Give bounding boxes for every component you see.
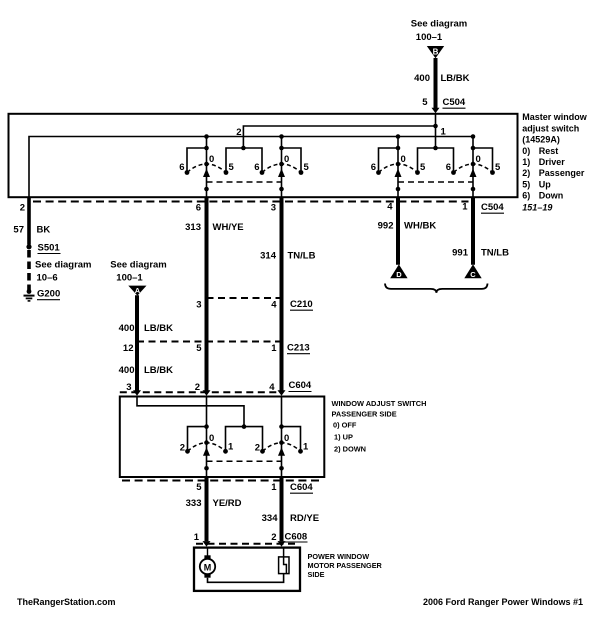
- svg-text:4: 4: [271, 300, 277, 311]
- wiper wire of switch unit 4 (passenger): [472, 137, 474, 198]
- svg-text:10–6: 10–6: [37, 273, 58, 284]
- ground G200: [24, 289, 61, 301]
- svg-text:4: 4: [269, 382, 275, 393]
- svg-text:C604: C604: [289, 380, 312, 391]
- wire 57 BK to ground: [13, 197, 50, 245]
- svg-text:C: C: [470, 270, 476, 279]
- svg-text:1) UP: 1) UP: [334, 433, 353, 442]
- svg-text:2: 2: [236, 127, 241, 138]
- svg-text:WINDOW ADJUST SWITCH: WINDOW ADJUST SWITCH: [332, 399, 427, 408]
- svg-text:2: 2: [255, 443, 260, 454]
- svg-text:5: 5: [229, 162, 235, 173]
- contact dots of switch unit 1 (driver): [185, 170, 190, 175]
- ground bus wire to pin 2: [29, 137, 473, 198]
- net 1 wire (driver feed from C504-5): [241, 114, 446, 151]
- contact dots of switch unit 4 (passenger): [451, 170, 456, 175]
- svg-text:400: 400: [119, 365, 135, 376]
- svg-text:5: 5: [196, 343, 202, 354]
- svg-text:2: 2: [180, 443, 185, 454]
- pin 5 connector C504 label: [422, 97, 466, 108]
- svg-text:1: 1: [228, 442, 234, 453]
- wire 400 LB/BK lower segment label: [119, 365, 174, 376]
- wire 400 LB/BK upper segment: [119, 295, 174, 396]
- svg-text:C604: C604: [290, 482, 313, 493]
- svg-text:5: 5: [422, 97, 428, 108]
- svg-text:1: 1: [271, 343, 277, 354]
- motor M: [200, 548, 215, 578]
- svg-text:WH/BK: WH/BK: [404, 221, 436, 232]
- master switch legend: [522, 112, 588, 212]
- svg-text:991: 991: [452, 248, 469, 259]
- svg-text:1): 1): [522, 157, 530, 167]
- svg-text:1: 1: [462, 202, 468, 213]
- svg-text:2006 Ford Ranger Power Windows: 2006 Ford Ranger Power Windows #1: [423, 597, 583, 607]
- wiper arrow of passenger switch unit down: [278, 447, 285, 456]
- svg-text:WH/YE: WH/YE: [213, 222, 244, 233]
- connector C: [464, 264, 481, 278]
- window adjust switch passenger side box: [120, 397, 324, 478]
- svg-text:0: 0: [209, 433, 214, 444]
- contact dots of switch unit 2 (driver): [260, 170, 265, 175]
- connector C604 (top of passenger switch): [120, 380, 312, 393]
- svg-text:6: 6: [254, 162, 259, 173]
- svg-text:D: D: [396, 270, 402, 279]
- wiper wire of switch unit 2 (driver): [281, 137, 283, 198]
- svg-text:1: 1: [194, 532, 200, 543]
- svg-text:12: 12: [123, 343, 134, 354]
- svg-text:S501: S501: [38, 243, 61, 254]
- svg-text:Rest: Rest: [539, 146, 559, 156]
- junction dots on wiper of passenger switch unit up: [204, 424, 209, 429]
- svg-text:adjust switch: adjust switch: [522, 123, 579, 133]
- junction dots on wiper of passenger switch unit down: [279, 424, 284, 429]
- svg-text:C213: C213: [287, 343, 310, 354]
- svg-text:0: 0: [209, 154, 214, 165]
- net 2 wire (passenger): [236, 126, 435, 148]
- contact wires of passenger switch unit up: [188, 427, 207, 452]
- connector C504 dashed line under master switch: [33, 201, 469, 203]
- feed wire from pin 3 inside box: [137, 397, 246, 429]
- svg-text:MOTOR PASSENGER: MOTOR PASSENGER: [308, 561, 383, 570]
- svg-text:RD/YE: RD/YE: [290, 513, 319, 524]
- wiper arrow of switch unit 3 (passenger): [395, 169, 402, 178]
- svg-text:313: 313: [185, 222, 201, 233]
- switch unit 4 (passenger): [436, 134, 502, 197]
- svg-text:Up: Up: [539, 179, 551, 189]
- pin 1 C504: [462, 202, 504, 214]
- wire 992 WH/BK: [378, 197, 437, 265]
- svg-text:See diagram: See diagram: [35, 260, 92, 271]
- svg-text:B: B: [433, 48, 439, 57]
- switch unit 1 (driver): [179, 134, 243, 197]
- mechanical link right pair: [398, 181, 473, 183]
- svg-text:2) DOWN: 2) DOWN: [334, 445, 366, 454]
- wiper arrow of switch unit 2 (driver): [278, 169, 285, 178]
- connector B from diagram 100-1: [411, 19, 468, 59]
- circuit breaker: [279, 548, 289, 574]
- svg-text:C504: C504: [443, 97, 466, 108]
- pin 1 C604: [271, 482, 313, 493]
- power window motor passenger side box: [194, 548, 300, 591]
- master window adjust switch box (14529A): [9, 114, 518, 197]
- svg-text:0: 0: [284, 433, 289, 444]
- passenger switch legend: [332, 399, 427, 454]
- wiper wire of switch unit 1 (driver): [206, 137, 208, 198]
- svg-text:See diagram: See diagram: [110, 260, 167, 271]
- svg-text:G200: G200: [37, 289, 60, 300]
- wiper wire of passenger switch unit down: [281, 397, 283, 478]
- connector C213: [123, 342, 310, 355]
- wire 334 RD/YE: [262, 477, 319, 547]
- svg-text:1: 1: [303, 442, 309, 453]
- svg-text:333: 333: [186, 498, 202, 509]
- connector C210: [196, 298, 313, 311]
- motor box legend: [308, 552, 383, 579]
- junction dots on wiper of switch unit 4 (passenger): [471, 134, 476, 139]
- svg-text:1: 1: [441, 126, 447, 137]
- wire 333 YE/RD: [186, 477, 242, 547]
- svg-text:TheRangerStation.com: TheRangerStation.com: [17, 597, 116, 607]
- svg-text:Master window: Master window: [522, 112, 588, 122]
- internal wire motor to breaker: [208, 574, 284, 583]
- dashed wire to G200: [27, 250, 31, 290]
- wiper arrow of switch unit 4 (passenger): [470, 169, 477, 178]
- svg-text:M: M: [204, 562, 212, 572]
- switch unit 3 (passenger): [371, 134, 436, 197]
- svg-text:PASSENGER SIDE: PASSENGER SIDE: [332, 410, 397, 419]
- svg-text:2: 2: [271, 532, 276, 543]
- svg-text:See diagram: See diagram: [411, 19, 468, 30]
- svg-text:0: 0: [284, 154, 289, 165]
- svg-text:TN/LB: TN/LB: [288, 251, 316, 262]
- svg-text:2): 2): [522, 168, 530, 178]
- svg-text:6: 6: [446, 162, 451, 173]
- svg-text:100–1: 100–1: [116, 273, 143, 284]
- svg-text:5: 5: [495, 162, 501, 173]
- wiper wire of passenger switch unit up: [206, 397, 208, 478]
- svg-text:BK: BK: [37, 225, 51, 236]
- connector D: [390, 264, 407, 278]
- contact arc of switch unit 2 (driver): [262, 164, 301, 173]
- svg-text:Down: Down: [539, 191, 564, 201]
- contact dots of passenger switch unit down: [260, 449, 265, 454]
- wiper arrow of passenger switch unit up: [203, 447, 210, 456]
- contact wires of switch unit 3 (passenger): [379, 148, 399, 173]
- brace to power window motor driver side: [385, 284, 488, 293]
- svg-text:0) OFF: 0) OFF: [333, 421, 357, 430]
- contact arc of switch unit 3 (passenger): [379, 164, 418, 173]
- contact wires of switch unit 4 (passenger): [473, 148, 493, 173]
- svg-text:TN/LB: TN/LB: [481, 248, 509, 259]
- svg-text:C210: C210: [290, 299, 313, 310]
- svg-text:LB/BK: LB/BK: [144, 323, 173, 334]
- passenger switch unit up: [180, 397, 244, 478]
- switch unit 2 (driver): [243, 134, 309, 197]
- svg-text:5: 5: [420, 162, 426, 173]
- connector A from diagram 100-1: [110, 260, 167, 296]
- wire 313 WH/YE: [185, 197, 244, 396]
- svg-text:A: A: [135, 286, 141, 295]
- mechanical link left pair: [207, 181, 282, 183]
- svg-text:C608: C608: [285, 532, 308, 543]
- svg-text:3: 3: [126, 382, 131, 393]
- wire 400 LB/BK feed to C504 pin 5: [414, 58, 470, 113]
- wire 991 TN/LB: [452, 197, 509, 265]
- connector C604 dashed line at box bottom: [122, 480, 322, 482]
- svg-text:LB/BK: LB/BK: [441, 73, 470, 84]
- mechanical link passenger switch: [207, 460, 282, 462]
- svg-text:400: 400: [119, 323, 135, 334]
- junction dots on wiper of switch unit 2 (driver): [279, 134, 284, 139]
- wire 314 TN/LB: [260, 197, 315, 396]
- svg-text:5): 5): [522, 179, 530, 189]
- contact arc of passenger switch unit up: [188, 443, 226, 452]
- svg-text:4: 4: [387, 202, 393, 213]
- svg-text:2: 2: [195, 382, 200, 393]
- svg-text:314: 314: [260, 251, 277, 262]
- wiper wire of switch unit 3 (passenger): [397, 137, 399, 198]
- junction dots on wiper of switch unit 1 (driver): [204, 134, 209, 139]
- passenger switch unit down: [244, 397, 309, 478]
- svg-text:C504: C504: [481, 202, 504, 213]
- svg-text:3: 3: [196, 300, 201, 311]
- svg-text:POWER WINDOW: POWER WINDOW: [308, 552, 370, 561]
- svg-text:400: 400: [414, 73, 430, 84]
- svg-text:SIDE: SIDE: [308, 570, 325, 579]
- svg-text:0: 0: [476, 154, 481, 165]
- svg-text:57: 57: [13, 225, 24, 236]
- svg-text:6): 6): [522, 191, 530, 201]
- contact wires of switch unit 2 (driver): [282, 148, 302, 173]
- svg-text:3: 3: [271, 203, 276, 214]
- svg-text:6: 6: [196, 203, 201, 214]
- contact arc of passenger switch unit down: [263, 443, 301, 452]
- connector C608: [194, 532, 308, 544]
- contact dots of switch unit 3 (passenger): [376, 170, 381, 175]
- svg-text:6: 6: [179, 162, 184, 173]
- svg-text:334: 334: [262, 513, 279, 524]
- wiper arrow of switch unit 1 (driver): [203, 169, 210, 178]
- svg-text:992: 992: [378, 221, 394, 232]
- svg-text:Passenger: Passenger: [539, 168, 585, 178]
- svg-text:0): 0): [522, 146, 530, 156]
- svg-text:LB/BK: LB/BK: [144, 365, 173, 376]
- contact wires of switch unit 1 (driver): [187, 148, 207, 173]
- contact dots of passenger switch unit up: [185, 449, 190, 454]
- svg-text:151–19: 151–19: [522, 202, 552, 212]
- svg-text:6: 6: [371, 162, 376, 173]
- svg-text:2: 2: [20, 203, 25, 214]
- svg-text:1: 1: [271, 482, 277, 493]
- junction dots on wiper of switch unit 3 (passenger): [396, 134, 401, 139]
- svg-text:0: 0: [401, 154, 406, 165]
- contact arc of switch unit 1 (driver): [187, 164, 226, 173]
- svg-text:5: 5: [304, 162, 310, 173]
- svg-text:5: 5: [196, 482, 202, 493]
- contact wires of passenger switch unit down: [282, 427, 301, 452]
- svg-text:Driver: Driver: [539, 157, 566, 167]
- contact arc of switch unit 4 (passenger): [454, 164, 493, 173]
- splice S501: [26, 243, 60, 254]
- svg-text:100–1: 100–1: [416, 32, 443, 43]
- svg-text:(14529A): (14529A): [522, 135, 560, 145]
- svg-text:YE/RD: YE/RD: [213, 498, 242, 509]
